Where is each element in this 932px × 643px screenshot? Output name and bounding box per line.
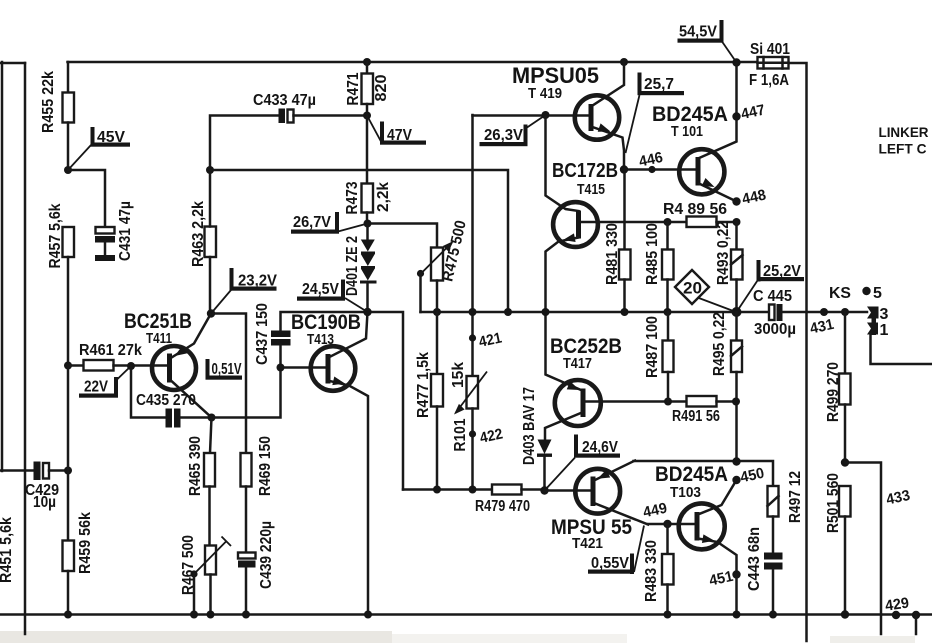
svg-text:5: 5: [873, 285, 882, 302]
svg-text:BC172B: BC172B: [552, 160, 618, 182]
node R483 top: [663, 520, 671, 528]
wire C435 node to C437 branch: [212, 368, 281, 418]
resistor R467 500 (trimmer): [180, 535, 231, 615]
flag 25,7: [626, 73, 685, 154]
connector pin 3: [867, 306, 889, 323]
node 449: [642, 500, 669, 522]
wire left rail x=25 (R451 branch): [24, 63, 27, 634]
svg-text:C 445: C 445: [753, 288, 792, 305]
wire right rail x=806.5: [789, 63, 807, 641]
svg-text:T 101: T 101: [671, 123, 703, 140]
svg-text:24,5V: 24,5V: [302, 281, 340, 298]
connector pin 5: [862, 285, 882, 302]
resistor R457 5,6k: [47, 203, 74, 365]
node R471/C433: [363, 112, 371, 120]
svg-text:26,7V: 26,7V: [293, 214, 332, 231]
flag 47V: [367, 116, 426, 145]
svg-text:24,6V: 24,6V: [582, 439, 619, 456]
node 447: [732, 101, 766, 123]
node BC190B collector / D401: [363, 308, 371, 316]
svg-text:R487 100: R487 100: [644, 316, 661, 378]
svg-text:C437 150: C437 150: [254, 303, 271, 365]
node R485 bottom: [664, 308, 672, 316]
svg-text:0,51V: 0,51V: [212, 361, 242, 378]
node 422: [469, 425, 504, 446]
svg-text:F 1,6A: F 1,6A: [749, 72, 789, 89]
svg-text:BD245A: BD245A: [655, 463, 728, 486]
node BC251B base: [127, 362, 135, 370]
svg-text:T413: T413: [307, 331, 334, 348]
svg-text:R479 470: R479 470: [475, 498, 530, 515]
transistor Q T417 BC252B: [545, 312, 622, 440]
node R477 bottom: [433, 486, 441, 494]
wire pin1 to right edge: [871, 335, 932, 365]
wire top-left stub: [0, 62, 25, 65]
wire left cut line x=2: [1, 62, 4, 471]
svg-text:R465 390: R465 390: [187, 436, 204, 496]
svg-text:R485 100: R485 100: [644, 223, 661, 285]
wire emitter node to R469 branch: [211, 314, 246, 454]
resistor R461 27k: [64, 342, 168, 371]
svg-text:C439 220µ: C439 220µ: [258, 521, 275, 589]
connector pin 1: [867, 307, 889, 339]
flag 45V: [68, 127, 130, 170]
flag 24,5V: [297, 280, 368, 313]
node 431: [808, 308, 835, 338]
node 448: [732, 186, 767, 208]
node R473/D401: [364, 220, 372, 228]
svg-text:T417: T417: [563, 355, 592, 372]
wire node to C431: [68, 170, 105, 227]
wire BC252B base: [583, 400, 687, 403]
node BC172B emitter bottom: [542, 308, 550, 316]
node R481 bottom: [621, 308, 629, 316]
resistor R495 0,22 (fusible): [711, 312, 742, 462]
node BC190B base: [277, 364, 285, 372]
resistor R489 56: [663, 201, 737, 227]
resistor R483 330: [643, 524, 674, 615]
wire R473 node to R475 top: [368, 224, 438, 248]
label 433: [885, 487, 912, 509]
svg-text:R481 330: R481 330: [604, 223, 621, 285]
flag 24,6V: [545, 435, 621, 491]
svg-text:23,2V: 23,2V: [238, 273, 278, 290]
wire top supply rail 54,5V: [68, 61, 758, 64]
svg-text:C435 270: C435 270: [136, 392, 196, 409]
node R499/R501/433: [841, 458, 849, 466]
resistor R465 390: [187, 418, 215, 546]
svg-text:D403 BAV 17: D403 BAV 17: [521, 387, 538, 465]
wire bias bottom line y=489.5: [403, 488, 492, 491]
transistor Q T103 BD245A: [655, 463, 737, 575]
diode D403 BAV17: [521, 387, 552, 491]
svg-text:T421: T421: [572, 535, 603, 552]
resistor R451 label: [0, 517, 15, 583]
scan artifact strip bottom: [0, 631, 915, 643]
resistor R485 100: [644, 222, 674, 312]
svg-text:1: 1: [880, 322, 889, 339]
node bias line x=508: [504, 308, 512, 316]
node C435/R465: [208, 414, 216, 422]
node R489/R493: [733, 218, 741, 226]
wire T103 base line: [648, 523, 697, 526]
wire T103 emitter to rail: [735, 575, 738, 615]
flag 25,2V: [737, 260, 805, 312]
resistor R101 15k (variable): [450, 362, 487, 490]
node C433/R463 junction: [206, 166, 214, 174]
node 421: [469, 329, 503, 350]
node 450: [732, 465, 766, 487]
capacitor C431 47µ: [95, 201, 134, 261]
svg-text:2,2k: 2,2k: [375, 182, 392, 212]
node MPSU55 base / R479 / D403: [540, 486, 548, 494]
capacitor C439 220µ: [238, 521, 275, 615]
svg-text:R461 27k: R461 27k: [79, 342, 142, 359]
resistor R459 56k: [63, 366, 95, 615]
flag 0,55V: [588, 526, 644, 575]
transistor Q T415 BC172B: [546, 116, 619, 313]
resistor R477 1,5k: [415, 312, 443, 490]
svg-text:26,3V: 26,3V: [484, 127, 524, 144]
svg-text:R455 22k: R455 22k: [40, 71, 57, 133]
svg-text:T411: T411: [146, 330, 172, 347]
resistor R497 12 (fusible): [768, 471, 805, 553]
svg-text:3: 3: [880, 306, 889, 323]
flag 26,3V: [480, 115, 546, 146]
wire bottom ground rail: [0, 613, 932, 616]
resistor R473 2,2k: [344, 116, 392, 224]
svg-text:45V: 45V: [97, 129, 126, 146]
node R501 bottom rail: [841, 610, 849, 618]
svg-text:R463 2,2k: R463 2,2k: [190, 201, 207, 267]
node output main (C445): [732, 307, 742, 317]
node 429: [884, 595, 910, 620]
svg-text:R457 5,6k: R457 5,6k: [47, 203, 64, 268]
node R487 bottom / R491: [664, 398, 672, 406]
wire output line left segment (C437 to corner): [281, 312, 404, 490]
svg-text:R483 330: R483 330: [643, 540, 660, 602]
capacitor C429 10µ: [0, 462, 72, 512]
node fuse/top rail: [732, 58, 740, 66]
svg-text:15k: 15k: [450, 362, 467, 388]
label LINKER / LEFT C: [879, 124, 929, 157]
svg-text:25,7: 25,7: [644, 76, 674, 93]
svg-text:429: 429: [884, 595, 910, 615]
svg-text:10µ: 10µ: [33, 494, 56, 511]
node R499 branch: [841, 308, 849, 316]
node R475/R477: [433, 308, 441, 316]
node 451: [708, 568, 741, 590]
transistor Q T419 MPSU05: [512, 58, 628, 170]
svg-text:R477 1,5k: R477 1,5k: [415, 352, 432, 418]
transistor Q T411 BC251B: [124, 310, 212, 418]
svg-text:T 419: T 419: [528, 85, 562, 102]
svg-text:R473: R473: [344, 181, 361, 214]
resistor R475 500 (variable): [417, 219, 470, 312]
svg-text:C431 47µ: C431 47µ: [117, 201, 134, 261]
svg-text:KS: KS: [829, 285, 851, 302]
resistor R481 330: [604, 170, 631, 313]
resistor R469 150: [241, 436, 275, 553]
capacitor C437 150: [254, 303, 291, 368]
svg-text:R501 560: R501 560: [825, 473, 842, 533]
transistor Q T413 BC190B: [281, 311, 369, 615]
resistor R499 270: [825, 312, 851, 463]
svg-text:54,5V: 54,5V: [679, 24, 718, 41]
node/wire right bottom stub: [912, 611, 920, 634]
svg-text:R493 0,22: R493 0,22: [715, 221, 732, 285]
svg-text:0,55V: 0,55V: [591, 555, 630, 572]
svg-text:R497 12: R497 12: [787, 471, 804, 523]
svg-text:R101: R101: [452, 418, 469, 451]
node base/26,3V: [542, 111, 550, 119]
capacitor C435 270: [131, 366, 212, 428]
svg-text:R4 89 56: R4 89 56: [663, 201, 727, 218]
node R101 bottom: [469, 486, 477, 494]
svg-text:T415: T415: [577, 181, 605, 198]
transistor Q T421 MPSU55: [545, 461, 649, 553]
ground rail node dots: [64, 611, 777, 619]
wire MPSU05 base: [473, 114, 590, 117]
diode D401 ZE 2 (triple): [344, 224, 377, 313]
svg-text:R451 5,6k: R451 5,6k: [0, 517, 15, 583]
wire MPSU55 emitter line to R497: [634, 461, 774, 486]
svg-text:D401 ZE 2: D401 ZE 2: [344, 236, 361, 296]
resistor R493 0,22 (fusible): [715, 221, 743, 312]
wire T101 base line: [624, 168, 696, 171]
flag 23,2V: [211, 268, 278, 314]
capacitor C443 68n: [746, 527, 783, 615]
svg-text:22V: 22V: [84, 379, 109, 396]
capacitor C445 3000µ: [753, 288, 867, 338]
flag 54,5V: [678, 20, 737, 63]
svg-text:LEFT C: LEFT C: [879, 141, 927, 157]
wire MPSU05 base feedback vertical x=472.5: [471, 115, 474, 376]
wire 433 branch: [845, 463, 881, 635]
node R455/R457 junction: [64, 166, 72, 174]
resistor R463 2,2k: [190, 170, 216, 314]
resistor R501 560: [825, 473, 851, 615]
transistor Q T101 BD245A: [652, 63, 737, 202]
node 446 MPSU05 emitter: [620, 165, 628, 173]
flag 22V: [79, 366, 131, 398]
fuse Si401 F1,6A: [749, 41, 790, 89]
resistor R455 22k: [40, 62, 74, 170]
svg-text:R467 500: R467 500: [180, 535, 197, 595]
node output/R101: [469, 308, 477, 316]
svg-text:R491 56: R491 56: [672, 408, 720, 425]
resistor R487 100: [644, 312, 674, 402]
svg-text:R495 0,22: R495 0,22: [711, 312, 728, 376]
node R485 top: [664, 218, 672, 226]
node R491/R495: [732, 398, 740, 406]
svg-text:LINKER: LINKER: [879, 124, 929, 140]
capacitor C433 47µ: [210, 92, 367, 170]
resistor R479 470: [475, 485, 545, 516]
svg-text:R499 270: R499 270: [825, 362, 842, 422]
svg-text:C433 47µ: C433 47µ: [253, 92, 316, 109]
node T103 collector branch: [732, 457, 740, 465]
node 446 dot2: [637, 149, 664, 173]
svg-text:25,2V: 25,2V: [763, 263, 802, 280]
flag 0,51V: [206, 359, 243, 380]
flag 26,7V: [291, 212, 368, 234]
wire long bias line y=169.5: [210, 170, 508, 312]
node BC251B emitter / R463: [207, 309, 215, 317]
wire BC172B base line y=222: [581, 221, 687, 224]
svg-text:T103: T103: [670, 484, 701, 501]
svg-text:R471: R471: [345, 72, 362, 105]
resistor R471 820: [345, 58, 390, 116]
label KS: [829, 285, 851, 302]
svg-text:R459 56k: R459 56k: [77, 512, 94, 574]
wire output rail y=312: [421, 311, 770, 314]
resistor R491 56: [672, 396, 736, 425]
svg-text:R469 150: R469 150: [257, 436, 274, 496]
svg-text:C443 68n: C443 68n: [746, 527, 763, 591]
svg-text:820: 820: [373, 75, 390, 102]
svg-text:3000µ: 3000µ: [754, 321, 796, 338]
svg-text:Si 401: Si 401: [750, 41, 790, 58]
svg-text:20: 20: [683, 280, 702, 298]
svg-text:47V: 47V: [387, 127, 413, 144]
connector diamond 20: [675, 270, 736, 312]
